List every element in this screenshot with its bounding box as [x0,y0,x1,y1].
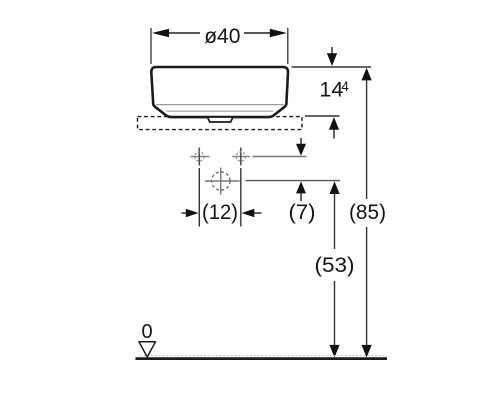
drain hole dashed circle [212,172,230,190]
dimension (12) arrow right [242,209,262,217]
label (12) [202,200,238,224]
datum triangle symbol [139,342,156,357]
dimension (7) arrow down [296,138,306,156]
faucet hole cross right [232,148,250,166]
label (85) [349,200,386,224]
drain centerline horizontal [205,180,240,182]
dimension ø40 arrow left [152,29,169,38]
svg-text:0: 0 [141,321,152,343]
dimension (12) extension line left [198,168,200,227]
dimension 14 top reference line [292,66,372,68]
dimension ø40 line [166,32,272,34]
svg-text:(53): (53) [315,253,355,277]
dimension 14 arrow up [329,117,339,139]
floor hatch dotted line [140,355,386,357]
dimension (53) line with arrows [329,181,339,357]
svg-text:(85): (85) [349,200,386,224]
dimension ø40 extension line right [287,28,289,64]
faucet hole cross left [191,148,210,166]
basin inner rim line lower [167,110,274,112]
dimension ø40 extension line left [150,28,152,64]
dimension 14 bottom reference line [305,115,340,117]
label ø40 [204,25,240,48]
basin inner rim line upper [156,104,284,106]
drain centerline vertical [220,168,222,195]
floor line [136,357,388,360]
svg-text:14: 14 [319,78,343,102]
basin outline [151,67,288,117]
datum zero label [141,321,152,343]
svg-text:4: 4 [341,79,349,94]
label 14 superscript 4 [319,78,349,102]
dimension (12) extension line right [240,168,242,227]
label (53) [315,253,355,277]
dimension (7) arrow up [296,181,306,201]
svg-text:(12): (12) [202,200,238,224]
label (7) [289,200,316,224]
drain centerline extension right [246,180,341,182]
countertop dashed outline [138,117,303,130]
svg-text:(7): (7) [289,200,316,224]
svg-text:ø40: ø40 [204,25,240,48]
basin drain outlet trapezoid [208,118,233,122]
dimension (85) line with arrows [362,68,372,358]
faucet centerline extension right [253,156,307,158]
dimension ø40 arrow right [270,29,287,38]
dimension (12) arrow left [182,209,199,217]
dimension 14 arrow down [327,47,337,66]
